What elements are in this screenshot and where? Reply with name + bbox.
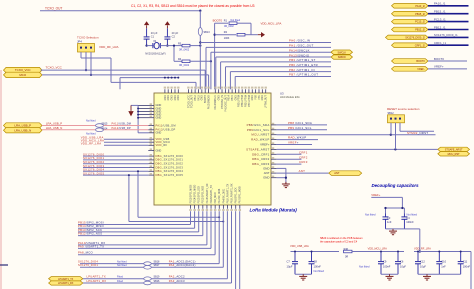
- svg-text:GND: GND: [165, 95, 167, 100]
- junction DIO5 row: [128, 174, 224, 222]
- svg-text:PH1/OSC_OUT: PH1/OSC_OUT: [225, 95, 227, 112]
- svg-text:SB17: SB17: [154, 264, 161, 267]
- svg-text:VDD_RF: VDD_RF: [156, 143, 168, 147]
- wire U3 right row y=134.7: [277, 134, 436, 136]
- net label PB14/SPI2_MISO: [78, 224, 104, 228]
- net label PA9/USART1_TX: [78, 244, 104, 248]
- junction C6 top: [397, 251, 399, 253]
- wire net PB7/LPTIM1_OUT: [235, 76, 331, 89]
- svg-text:DBG_SX1276_DIO5: DBG_SX1276_DIO5: [156, 173, 184, 177]
- net label PB3/LPTIM1_ST: [289, 58, 316, 62]
- svg-text:PA15: PA15: [197, 95, 200, 101]
- power VDD arrow (C2): [165, 21, 170, 28]
- port MCO: [4, 72, 43, 77]
- svg-text:ANT: ANT: [334, 171, 340, 175]
- svg-text:10µF: 10µF: [420, 264, 426, 268]
- svg-text:PA14/SWCLK: PA14/SWCLK: [214, 95, 217, 110]
- port PC13_I2: [392, 19, 429, 24]
- capacitor C8 100nF: [309, 252, 325, 275]
- title Decoupling capacitors: [372, 183, 420, 188]
- capacitor C2 20pF: [164, 28, 178, 45]
- wire GND pins common vertical: [131, 105, 148, 132]
- net label PA13/SWDIO: [289, 53, 310, 57]
- net label CRF1: [299, 150, 308, 154]
- net label PB9 /I2C1_SCL: [288, 126, 312, 130]
- svg-text:STSAFE_ARST: STSAFE_ARST: [246, 147, 269, 151]
- svg-text:PB14: PB14: [229, 95, 231, 101]
- port LRA_USB_N: [4, 128, 43, 133]
- svg-text:DBG_SX1276_DIO2: DBG_SX1276_DIO2: [156, 162, 184, 166]
- svg-text:1nF: 1nF: [441, 264, 446, 268]
- net label PH1/OSC_OUT: [289, 44, 314, 48]
- wire SB14 to PA12: [104, 129, 149, 131]
- svg-text:PB8 /I2C1_SDA: PB8 /I2C1_SDA: [288, 121, 312, 125]
- svg-text:GND: GND: [156, 116, 162, 120]
- wire net PA10/USART1_RX: [78, 211, 207, 245]
- wire ground bus group2: [381, 273, 398, 275]
- svg-text:SB18: SB18: [154, 260, 161, 263]
- net label PB12/SPI2_NSS: [78, 232, 102, 236]
- wire JP4 pin1 to pin row: [111, 58, 196, 89]
- wire net BOOT0: [428, 60, 467, 62]
- wire DIO4 to solder bridge row: [138, 171, 219, 217]
- svg-text:PB6 /LPTIM1_ETR: PB6 /LPTIM1_ETR: [289, 63, 318, 67]
- port TCXO_VCC: [4, 67, 43, 72]
- net label LRA_USB_P: [46, 121, 62, 125]
- wire JP4 pin2: [85, 52, 87, 70]
- svg-text:SWDIO: SWDIO: [338, 56, 346, 59]
- net label CRF3: [299, 160, 308, 164]
- svg-text:PA3_ADC3: PA3_ADC3: [169, 279, 185, 283]
- U3 left pins: [138, 103, 183, 177]
- svg-text:JP4: JP4: [77, 40, 82, 44]
- wire net PA9/USART1_TX: [78, 211, 211, 248]
- svg-text:ANT: ANT: [299, 169, 306, 173]
- sheet border tick (bottom left): [0, 264, 8, 266]
- svg-text:PB7 /LPTIM1_OUT: PB7 /LPTIM1_OUT: [289, 73, 318, 77]
- svg-text:CRF1_I1: CRF1_I1: [434, 41, 446, 45]
- crystal X1: [145, 39, 167, 55]
- svg-text:LPUART1_RX: LPUART1_RX: [87, 279, 107, 283]
- wire ground bus group1: [295, 273, 312, 275]
- svg-text:PB12_I1: PB12_I1: [434, 25, 446, 29]
- wire DIO5 to solder bridge row: [129, 175, 223, 221]
- wire net VREF+: [428, 68, 467, 70]
- net label VREF+: [434, 65, 444, 69]
- junction JP4 pin2 / TCXO_VCC: [85, 69, 87, 71]
- junction SB13/row1: [199, 41, 201, 43]
- svg-text:20 pF: 20 pF: [151, 31, 158, 35]
- svg-text:GND: GND: [252, 95, 254, 100]
- svg-text:U3: U3: [280, 91, 284, 95]
- svg-text:C3: C3: [387, 216, 391, 220]
- svg-text:PB15: PB15: [232, 95, 234, 101]
- svg-text:SB19: SB19: [154, 276, 161, 279]
- net label PB13/SPI2_SCK: [78, 228, 102, 232]
- port LRA_USB_P: [4, 123, 43, 128]
- junction R3/SB13: [199, 44, 201, 46]
- svg-text:TCXO_VCC: TCXO_VCC: [188, 95, 190, 108]
- capacitor C3 1nF (not fitted): [365, 213, 392, 229]
- wire U3 pin PA7: [239, 211, 241, 289]
- svg-text:100nF: 100nF: [314, 264, 322, 268]
- net label VDD_MCU_LRA: [81, 139, 105, 143]
- svg-text:GND: GND: [156, 148, 162, 152]
- wire SX1276_DIO4: [83, 170, 148, 172]
- resistor R1 (not fitted): [215, 19, 251, 35]
- svg-text:SX1276_DIO0_I1: SX1276_DIO0_I1: [434, 33, 458, 37]
- resistor R3 0R: [178, 42, 190, 51]
- svg-text:PA13/SWDIO: PA13/SWDIO: [289, 53, 310, 57]
- net label PA1_ADC1(DAC1): [169, 260, 196, 264]
- wire net PB15_I1: [428, 13, 469, 15]
- svg-text:PA10_I1: PA10_I1: [434, 2, 446, 6]
- svg-text:LRA_USB_P: LRA_USB_P: [46, 121, 62, 125]
- junction C9 top: [380, 251, 382, 253]
- junctions GND pins left: [137, 108, 139, 119]
- resistor R2 100K: [215, 31, 258, 40]
- net label SX1276_DIO4: [83, 168, 104, 172]
- svg-text:BOOT0: BOOT0: [205, 95, 207, 104]
- junction R4 branch: [173, 44, 175, 46]
- resistor R4 0R: [178, 58, 190, 67]
- wire JP4 pin1: [81, 52, 111, 58]
- svg-text:GND: GND: [219, 95, 221, 100]
- svg-text:VDD_RF_LRA: VDD_RF_LRA: [414, 246, 431, 250]
- wire net PH1/OSC_OUT: [206, 47, 331, 89]
- svg-text:GND: GND: [263, 166, 269, 170]
- junction C4/VDD rail: [419, 250, 421, 252]
- svg-text:0R: 0R: [345, 256, 348, 259]
- net label VDD_USB_LRA (rail): [290, 244, 309, 248]
- svg-text:10µF: 10µF: [400, 264, 406, 268]
- wire R4 to OSC_OUT column: [190, 60, 211, 62]
- wire SX1276_DIO1: [83, 159, 148, 161]
- svg-text:20 pF: 20 pF: [172, 31, 179, 35]
- svg-text:100nF: 100nF: [463, 264, 471, 268]
- svg-text:C12: C12: [420, 260, 425, 264]
- svg-text:Not fitted: Not fitted: [314, 269, 325, 273]
- svg-text:VDD_MCU_LRA: VDD_MCU_LRA: [261, 22, 282, 26]
- net label LRA_USB_N: [46, 126, 62, 130]
- svg-text:PA10_I2: PA10_I2: [415, 5, 425, 8]
- solder bridge SB18: [144, 260, 160, 265]
- port SWCLK: [331, 50, 353, 54]
- port SWDIO: [331, 55, 353, 59]
- net label VDD_RF_LRA (rail): [414, 246, 431, 250]
- svg-text:GND: GND: [156, 131, 162, 135]
- svg-text:C1, C2, X1, R3, R4, SB13 and S: C1, C2, X1, R3, R4, SB13 and SB16 must b…: [131, 4, 255, 8]
- svg-text:GND: GND: [175, 95, 177, 100]
- svg-text:C8: C8: [314, 260, 318, 264]
- note text (placement instruction): [131, 4, 255, 8]
- wire net PA14/SWCLK: [211, 52, 335, 89]
- wire SB12 pin3: [400, 123, 434, 131]
- svg-text:10µF: 10µF: [287, 264, 293, 268]
- svg-text:PH0/OSC_IN: PH0/OSC_IN: [222, 95, 224, 109]
- svg-text:PA8_MCO: PA8_MCO: [78, 251, 93, 255]
- svg-text:DBG_SX1276_DIO0: DBG_SX1276_DIO0: [156, 154, 184, 158]
- power VDD arrow (C1): [144, 21, 149, 28]
- svg-text:NX2016SA(12pF): NX2016SA(12pF): [145, 52, 166, 56]
- svg-text:CRF3: CRF3: [299, 160, 308, 164]
- wire VDD_USB rail: [291, 251, 340, 253]
- power GND arrow (left): [128, 105, 133, 116]
- net label VDD_USB_LRA: [81, 136, 104, 140]
- net label PA11/USB_DM: [112, 123, 132, 126]
- svg-text:LPUART1_RX: LPUART1_RX: [58, 282, 74, 285]
- svg-text:SX1276_DIO4: SX1276_DIO4: [78, 260, 98, 264]
- svg-text:C10: C10: [441, 260, 446, 264]
- wire JP4 pin3: [90, 52, 92, 75]
- junction C7 top: [294, 251, 296, 253]
- capacitor C11 100nF: [458, 252, 471, 275]
- svg-text:PA5/SPI1_SCK: PA5/SPI1_SCK: [235, 187, 238, 203]
- wire OSC_IN / resistor R3: [167, 45, 182, 47]
- svg-text:DBG_SX1276_DIO4: DBG_SX1276_DIO4: [156, 169, 184, 173]
- wire VDD_RF_LRA: [104, 144, 148, 146]
- wire net PA10_I1: [428, 5, 469, 7]
- svg-text:C2: C2: [172, 35, 176, 39]
- wire net SX1276_DIO4 left: [80, 263, 144, 265]
- net label SX1276_DIO3: [83, 164, 104, 168]
- net label SX1276_DIO0: [83, 152, 104, 156]
- wire SB12 pin1: [390, 123, 392, 135]
- svg-text:SX1276_DIO0_I2: SX1276_DIO0_I2: [405, 37, 425, 40]
- solder bridge SB17: [144, 264, 160, 269]
- svg-text:LPUART1_TX: LPUART1_TX: [58, 278, 74, 281]
- svg-text:PB15_I2: PB15_I2: [415, 13, 425, 16]
- svg-text:Not fitted: Not fitted: [365, 213, 376, 217]
- svg-text:PA9/USART1_TX: PA9/USART1_TX: [210, 185, 213, 204]
- svg-text:PB15_I1: PB15_I1: [434, 10, 446, 14]
- wire BOOT0 vertical: [214, 23, 216, 89]
- net label SX1276_DIO4: [78, 260, 98, 264]
- svg-text:PB3/LPTIM: PB3/LPTIM: [239, 95, 241, 107]
- wire net PB12_I1: [428, 29, 469, 31]
- wire TCXO_OUT: [40, 10, 200, 12]
- port SX1276_DIO0_I2: [386, 35, 429, 40]
- net label CRF1_I1: [434, 41, 446, 45]
- solder bridge SB19: [144, 276, 160, 281]
- net label LPUART1_TX: [87, 275, 106, 279]
- wire U3 right row y=168.4: [277, 167, 286, 169]
- svg-text:LoRa Module (Murata): LoRa Module (Murata): [250, 208, 298, 213]
- svg-text:STSAFE_ARST: STSAFE_ARST: [445, 149, 463, 152]
- capacitor C12 10µF: [415, 252, 426, 275]
- svg-text:PB8/I2C1_SDA: PB8/I2C1_SDA: [247, 123, 270, 127]
- svg-text:Decoupling capacitors: Decoupling capacitors: [372, 183, 420, 188]
- title LoRa Module (Murata): [250, 208, 298, 213]
- svg-text:PB12/SPI2_NSS: PB12/SPI2_NSS: [203, 185, 205, 203]
- wire GND rail above U3: [120, 78, 178, 90]
- net label SX1276_DIO2: [83, 160, 104, 164]
- svg-text:LPTIM_OUT: LPTIM_OUT: [266, 95, 268, 109]
- label Not fitted: [117, 264, 127, 267]
- svg-text:TCXO_VCC: TCXO_VCC: [15, 68, 31, 72]
- svg-text:PA1/SX_DIO4: PA1/SX_DIO4: [218, 188, 221, 203]
- net label PB2/LPTIM1_IN: [289, 68, 315, 72]
- wire VDD_MCU_LRA: [104, 141, 148, 143]
- svg-text:GND: GND: [172, 95, 174, 100]
- svg-text:Not fitted: Not fitted: [117, 264, 127, 267]
- label Not fitted: [117, 261, 127, 264]
- svg-text:SWCLK: SWCLK: [337, 51, 346, 54]
- wire net PH0/OSC_IN: [200, 42, 331, 44]
- svg-text:LPUART1_TX: LPUART1_TX: [87, 275, 106, 279]
- net label SX1276_DIO5: [83, 171, 104, 175]
- wire U3 right row y=177.7: [277, 177, 286, 179]
- svg-text:PB0: PB0: [256, 95, 258, 100]
- junction C12 top: [417, 251, 419, 253]
- net label PA4_ADC4(DAC2): [169, 263, 196, 267]
- svg-text:TCXO_OUT: TCXO_OUT: [45, 7, 62, 11]
- wire net PB14/SPI2_MISO: [78, 211, 195, 228]
- svg-text:TCXO_VCC: TCXO_VCC: [46, 66, 63, 70]
- net label PA12/USB_DP: [112, 127, 131, 130]
- svg-text:MCU_NRST: MCU_NRST: [251, 133, 269, 137]
- solder bridge SB16: [144, 280, 160, 285]
- net label PB15_I1: [434, 10, 446, 14]
- wire net PA4_ADC4(DAC2): [151, 211, 223, 267]
- net label PH0/OSC_IN: [289, 39, 310, 43]
- ground symbol group1: [299, 274, 307, 280]
- svg-text:VREF+: VREF+: [288, 141, 299, 145]
- svg-text:PB6/LPTIM: PB6/LPTIM: [242, 95, 244, 107]
- svg-text:DBG_SX1276_DIO1: DBG_SX1276_DIO1: [156, 158, 184, 162]
- designator U3: [280, 91, 300, 99]
- capacitor C7 10µF: [287, 252, 299, 275]
- net label PB6/LPTIM1_ETR: [289, 63, 318, 67]
- svg-text:C11: C11: [463, 260, 468, 264]
- net label SX1276_DIO1: [83, 156, 104, 160]
- svg-text:C9: C9: [383, 260, 387, 264]
- net label PB8 /I2C1_SDA: [288, 121, 312, 125]
- svg-text:VDD_RF_LRA: VDD_RF_LRA: [81, 142, 102, 146]
- svg-text:PA2/LPUART1_TX: PA2/LPUART1_TX: [226, 183, 229, 203]
- wire net PB2/LPTIM1_IN: [230, 72, 331, 90]
- wire VDD_MCU rail: [352, 251, 404, 253]
- svg-text:ANT: ANT: [264, 171, 270, 175]
- svg-text:CRF2: CRF2: [299, 155, 308, 159]
- svg-text:PA3/LPUART1_RX: PA3/LPUART1_RX: [231, 183, 234, 203]
- svg-text:PB14/SPI2_MISO: PB14/SPI2_MISO: [195, 185, 197, 204]
- junction R4/OSC_OUT: [210, 60, 212, 62]
- wire U3 pin PA5: [235, 211, 237, 289]
- net label STM32_NRST: [407, 131, 428, 135]
- U3 bottom pins: [189, 183, 241, 211]
- svg-text:PA7/SPI1_MOSI: PA7/SPI1_MOSI: [239, 186, 242, 204]
- solder bridge SB15: [96, 123, 109, 128]
- junction STSAFE / SB12 pin2: [394, 148, 396, 150]
- svg-text:VREF+: VREF+: [260, 143, 270, 147]
- wire SX1276_DIO3: [83, 167, 148, 169]
- net label PA3_ADC3: [169, 279, 185, 283]
- port LPUART1_RX: [49, 281, 83, 285]
- junction C1 bottom: [145, 44, 147, 46]
- wire net PB3/LPTIM1_ST: [221, 62, 331, 89]
- port CRF1_I2: [392, 43, 429, 48]
- svg-text:GND: GND: [263, 176, 269, 180]
- svg-text:DBG_SX1276_DIO3: DBG_SX1276_DIO3: [156, 165, 184, 169]
- port LPUART1_TX: [49, 277, 83, 281]
- junction MCU_NRST / SB12 pin1: [390, 134, 392, 136]
- net label ANT: [299, 169, 306, 173]
- wire U3 right row y=149.4: [277, 148, 438, 150]
- svg-text:VDD_USB_LRA: VDD_USB_LRA: [290, 244, 309, 248]
- port ANT: [329, 171, 362, 176]
- svg-text:0R_0402: 0R_0402: [179, 48, 190, 51]
- net label BOOT0: [434, 57, 444, 61]
- svg-text:BOOT0: BOOT0: [213, 19, 223, 23]
- svg-text:PH0 /OSC_IN: PH0 /OSC_IN: [289, 39, 310, 43]
- ground symbol group3: [423, 274, 431, 280]
- svg-text:PB7/LPTIM: PB7/LPTIM: [249, 95, 251, 107]
- net label PA10_I1: [434, 2, 446, 6]
- wire net CRF1_I1: [428, 44, 469, 46]
- junction JP4 pin3 / MCO: [90, 74, 92, 76]
- junction on TCXO_OUT wire: [199, 10, 201, 12]
- svg-text:LRA Module ES1: LRA Module ES1: [280, 95, 300, 99]
- svg-text:BOOT0: BOOT0: [416, 60, 425, 63]
- svg-text:SB16: SB16: [154, 280, 161, 283]
- svg-text:PA8_MCO: PA8_MCO: [214, 192, 217, 203]
- svg-text:PH1 /OSC_OUT: PH1 /OSC_OUT: [289, 44, 314, 48]
- svg-text:GND: GND: [168, 95, 170, 100]
- svg-text:Fitted: Fitted: [117, 280, 124, 283]
- svg-text:GND: GND: [178, 95, 180, 100]
- svg-text:C6: C6: [400, 260, 404, 264]
- svg-text:C4: C4: [406, 216, 410, 220]
- wire net PC13_I1: [428, 21, 469, 23]
- svg-text:MCU_RST: MCU_RST: [448, 153, 461, 156]
- capacitor C4 100nF (not fitted): [401, 212, 417, 229]
- net label SX1276_DIO1: [78, 263, 98, 267]
- power VDD_MCU_LRA arrow: [258, 22, 282, 38]
- junction BOOT0: [213, 34, 215, 36]
- net label LPUART1_RX: [87, 279, 107, 283]
- svg-text:PB15/SPI2_MOSI: PB15/SPI2_MOSI: [190, 184, 192, 203]
- wire net PA13/SWDIO: [216, 57, 335, 89]
- junction VREF bus right: [401, 207, 403, 209]
- svg-text:PA11/USB_DM: PA11/USB_DM: [112, 123, 132, 126]
- power label VDD_RF_LRA: [99, 45, 119, 49]
- wire U3 right row y=154.3: [277, 153, 302, 155]
- wire SX1276_DIO5: [83, 174, 148, 176]
- net label PA10/USART1_RX: [78, 241, 105, 245]
- junction C10 top: [438, 251, 440, 253]
- svg-text:PA9 /USART1_TX: PA9 /USART1_TX: [78, 244, 104, 248]
- svg-text:C1: C1: [151, 35, 155, 39]
- svg-text:MCO: MCO: [19, 73, 26, 77]
- junction C8 top: [311, 251, 313, 253]
- wire MCO: [42, 75, 209, 89]
- net label BOOT0: [213, 19, 223, 23]
- port PB15_I2: [392, 11, 429, 16]
- svg-text:PA11/USB_DM: PA11/USB_DM: [156, 123, 176, 127]
- net label PA2_ADC2: [169, 275, 185, 279]
- svg-text:LRA_USB_N: LRA_USB_N: [14, 128, 31, 132]
- svg-text:DBG_CRF2: DBG_CRF2: [252, 157, 270, 161]
- svg-text:0R_0402: 0R_0402: [224, 25, 234, 28]
- junctions GND pins top: [164, 77, 179, 79]
- wire U3 right row y=144.5: [277, 144, 312, 146]
- svg-text:PA12/USB_DP: PA12/USB_DP: [112, 127, 131, 130]
- wire GND pins to ground: [285, 168, 287, 184]
- svg-text:1nF: 1nF: [387, 220, 392, 224]
- svg-text:TCXO_OUT: TCXO_OUT: [192, 95, 194, 108]
- net label VDD_MCU_LRA (rail): [368, 246, 388, 250]
